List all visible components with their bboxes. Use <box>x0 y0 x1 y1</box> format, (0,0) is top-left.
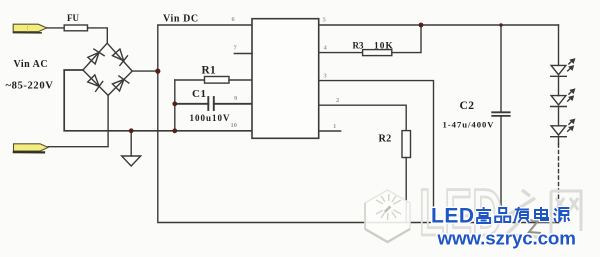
diode D4 (bottom-right edge) <box>112 75 129 92</box>
wire solid then dashed continuation <box>558 137 560 144</box>
pin 7 stub <box>234 53 252 55</box>
wire C1/R1 left vertical <box>174 80 176 131</box>
svg-text:FU: FU <box>67 13 79 23</box>
capacitor C2 <box>492 25 510 223</box>
wire <box>558 107 560 126</box>
svg-text:10K: 10K <box>374 42 394 52</box>
node C2 top <box>499 23 502 26</box>
LED1 <box>551 59 575 76</box>
IC U1 <box>252 19 319 139</box>
svg-text:LED: LED <box>431 205 475 228</box>
watermark hexagon logo <box>365 190 410 242</box>
wire terminal J1 to fuse <box>47 27 64 29</box>
watermark zigzag <box>528 220 541 233</box>
LED2 <box>551 89 575 106</box>
wire fuse to bridge top <box>88 28 108 43</box>
resistor R2 <box>402 131 411 223</box>
hanzi glyphs <box>476 207 569 223</box>
ground <box>122 131 141 166</box>
svg-text:www.szryc.com: www.szryc.com <box>437 227 576 248</box>
node R3 top <box>419 23 424 28</box>
terminal J1 (AC input top) <box>13 24 47 33</box>
svg-text:Vin AC: Vin AC <box>14 59 49 70</box>
wire <box>558 76 560 95</box>
wire pin3 to bottom rail <box>319 81 434 223</box>
wire pin5 top rail to LED string <box>319 24 559 26</box>
diode D1 (left-top edge) <box>87 48 104 65</box>
svg-text:1: 1 <box>333 123 336 130</box>
svg-text:C1: C1 <box>192 88 206 100</box>
node neg rail / C1R1 <box>172 128 177 133</box>
wire pin2 to R2 <box>319 105 407 130</box>
svg-text:C2: C2 <box>460 100 475 112</box>
diode D2 (top-right edge) <box>112 48 129 65</box>
capacitor C1 <box>175 97 252 110</box>
pin numbers <box>231 16 340 130</box>
node bridge+ <box>155 69 160 74</box>
svg-text:Vin DC: Vin DC <box>163 14 199 25</box>
watermark glyph 之 <box>506 190 539 237</box>
watermark blue text line 1: LED ... <box>431 205 569 228</box>
bridge rectifier diamond <box>83 43 132 95</box>
resistor R3 <box>319 25 421 56</box>
wire bridge negative rail <box>64 70 252 131</box>
svg-text:~85-220V: ~85-220V <box>6 81 54 92</box>
svg-text:10: 10 <box>231 122 238 129</box>
wire bridge positive to Vin DC rail <box>132 70 158 72</box>
wire bridge bottom to terminal J2 <box>48 95 108 146</box>
svg-text:R2: R2 <box>379 134 392 145</box>
svg-text:100u10V: 100u10V <box>190 113 231 123</box>
LED string wire <box>558 25 560 65</box>
resistor R1 <box>175 77 252 84</box>
svg-text:1-47u/400V: 1-47u/400V <box>443 120 495 130</box>
diode D3 (left-bottom edge) <box>87 74 104 91</box>
svg-text:2: 2 <box>336 97 339 104</box>
wire Vin DC vertical + bottom loop <box>158 25 559 223</box>
node C1 left <box>172 101 177 106</box>
fuse FU <box>64 25 87 31</box>
node ground tap <box>129 128 134 133</box>
watermark gray letters <box>419 175 502 249</box>
svg-text:R1: R1 <box>202 65 216 77</box>
pin 1 stub <box>319 130 341 132</box>
terminal J2 (AC input bottom) <box>14 144 49 153</box>
LED3 <box>551 120 575 137</box>
svg-text:R3: R3 <box>353 41 364 51</box>
watermark glyph 网 <box>551 191 581 235</box>
